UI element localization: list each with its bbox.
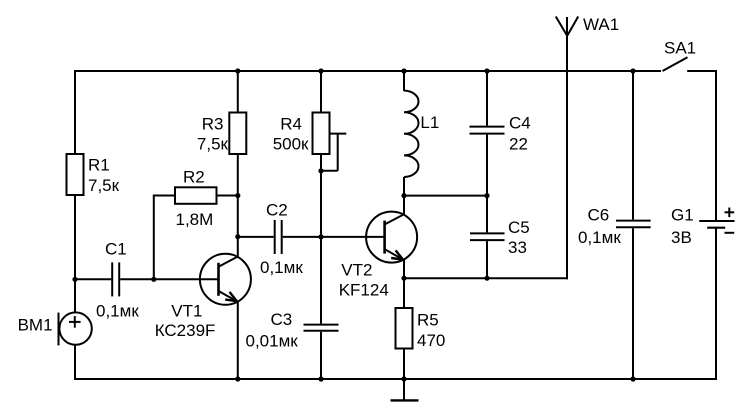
resistor R4	[313, 113, 330, 155]
wire R4 bottom column	[320, 154, 322, 237]
node junction L1 bottom / VT2 collector	[401, 193, 406, 198]
svg-text:0,01мк: 0,01мк	[246, 331, 299, 350]
wire C5 bottom lead	[486, 241, 488, 278]
capacitor C2	[275, 220, 282, 254]
svg-text:SA1: SA1	[664, 38, 696, 57]
wire SA1 right lead	[687, 70, 717, 72]
node junction C5 bottom	[484, 276, 489, 281]
svg-text:0,1мк: 0,1мк	[578, 228, 621, 247]
wire C3 bottom lead	[320, 332, 322, 379]
svg-text:C1: C1	[105, 240, 127, 259]
svg-text:33: 33	[508, 238, 527, 257]
transistor VT2	[366, 212, 417, 263]
wire R4 top lead	[320, 71, 322, 113]
svg-text:KF124: KF124	[339, 280, 389, 299]
ground	[391, 379, 419, 400]
wire R3 top lead	[237, 71, 239, 113]
wire bottom rail	[74, 378, 717, 380]
svg-text:R2: R2	[183, 167, 205, 186]
node junction C2 right	[318, 234, 323, 239]
svg-text:500к: 500к	[273, 135, 309, 154]
node junction R5 bottom / ground	[401, 376, 406, 381]
wire C3 top column	[320, 237, 322, 324]
wire R2 right lead	[217, 195, 239, 197]
wire VT1 emitter	[237, 301, 239, 379]
svg-text:C5: C5	[508, 218, 530, 237]
label G1 minus	[725, 232, 735, 234]
wire emitter rail to antenna column	[404, 277, 568, 279]
node junction R3 top	[235, 68, 240, 73]
svg-text:0,1мк: 0,1мк	[260, 258, 303, 277]
wire left rail lower	[74, 345, 76, 380]
svg-text:G1: G1	[671, 205, 694, 224]
resistor R2	[175, 187, 217, 204]
svg-text:R4: R4	[280, 114, 302, 133]
wire right rail lower	[715, 228, 717, 380]
capacitor C5	[470, 233, 505, 240]
wire L1 bottom lead	[403, 177, 405, 196]
wire C1 right lead to VT1 base	[120, 278, 218, 280]
resistor R3	[229, 113, 246, 155]
node junction VT2 emitter	[401, 276, 406, 281]
wire R2 left lead	[154, 196, 175, 280]
microphone BM1	[59, 312, 92, 345]
svg-text:КС239F: КС239F	[155, 321, 216, 340]
capacitor C6	[616, 221, 651, 228]
svg-text:22: 22	[509, 134, 528, 153]
node junction C4 top	[484, 68, 489, 73]
node junction C4 bottom	[484, 193, 489, 198]
wire C4 top lead	[486, 71, 488, 126]
node junction R4 tap	[318, 168, 323, 173]
wire VT2 base	[321, 236, 385, 238]
svg-text:470: 470	[417, 331, 445, 350]
svg-text:BM1: BM1	[18, 315, 53, 334]
node junction R4 top	[318, 68, 323, 73]
capacitor C3	[304, 325, 339, 331]
svg-text:L1: L1	[420, 113, 439, 132]
svg-text:7,5к: 7,5к	[88, 176, 120, 195]
svg-text:C6: C6	[588, 206, 610, 225]
node junction C2 left	[235, 234, 240, 239]
switch SA1 lever	[663, 57, 688, 71]
svg-text:R3: R3	[202, 114, 224, 133]
wire C6 bottom lead	[632, 228, 634, 379]
node junction C3 bottom	[318, 376, 323, 381]
node junction C1 left	[72, 277, 77, 282]
wire R4 tap wiper	[320, 134, 346, 171]
wire C6 top lead	[632, 71, 634, 220]
wire R3 bottom column to C2 node	[237, 154, 239, 237]
svg-text:WA1: WA1	[583, 15, 619, 34]
transistor VT1	[200, 254, 251, 305]
wire antenna feed line	[566, 17, 568, 279]
node junction VT1 emitter bottom	[235, 376, 240, 381]
label G1 plus	[725, 208, 735, 218]
svg-text:0,1мк: 0,1мк	[96, 302, 139, 321]
inductor L1	[404, 91, 419, 177]
resistor R5	[396, 308, 413, 349]
wire VT2 emitter	[403, 259, 405, 278]
wire C4 bottom lead	[486, 135, 488, 196]
node junction R2-R3	[235, 193, 240, 198]
wire C2 left lead	[238, 236, 274, 238]
svg-text:VT2: VT2	[341, 260, 372, 279]
wire R5 top lead	[403, 278, 405, 309]
wire C2 right lead	[283, 236, 321, 238]
battery G1	[699, 221, 734, 228]
svg-text:R5: R5	[417, 310, 439, 329]
svg-text:VT1: VT1	[171, 302, 202, 321]
svg-text:C4: C4	[509, 113, 531, 132]
resistor R1	[67, 154, 84, 195]
capacitor C4	[470, 127, 505, 134]
wire C1 left lead	[75, 278, 111, 280]
wire VT2 collector	[403, 196, 405, 216]
antenna WA1	[556, 17, 578, 36]
node junction R2 column on C1 wire	[151, 277, 156, 282]
svg-text:R1: R1	[88, 155, 110, 174]
svg-text:3В: 3В	[671, 228, 692, 247]
wire R5 bottom lead	[403, 348, 405, 379]
svg-text:C2: C2	[266, 201, 288, 220]
wire C5 top lead	[486, 196, 488, 233]
capacitor C1	[112, 262, 119, 296]
wire top rail	[74, 70, 661, 72]
wire VT1 collector	[237, 237, 239, 258]
svg-text:C3: C3	[271, 310, 293, 329]
wire collector rail L1 to C4	[404, 195, 487, 197]
wire L1 top lead	[403, 71, 405, 91]
node junction L1 top	[401, 68, 406, 73]
node junction C6 top	[630, 68, 635, 73]
node junction C6 bottom	[630, 376, 635, 381]
wire right rail upper	[715, 70, 717, 221]
svg-text:1,8М: 1,8М	[176, 210, 214, 229]
svg-text:7,5к: 7,5к	[197, 135, 229, 154]
wire left rail middle	[74, 194, 76, 314]
wire left rail upper	[74, 70, 76, 155]
